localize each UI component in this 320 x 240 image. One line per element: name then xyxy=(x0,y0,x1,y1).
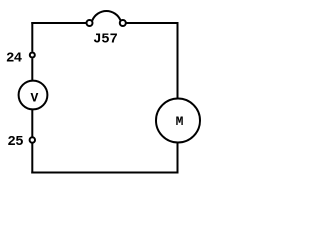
wire left lower vertical xyxy=(31,143,33,174)
svg-text:V: V xyxy=(30,90,38,105)
wire bottom xyxy=(31,172,178,174)
svg-text:24: 24 xyxy=(6,51,22,67)
wire left top vertical xyxy=(31,22,33,52)
node 25 terminal xyxy=(30,137,35,142)
svg-text:M: M xyxy=(176,114,184,129)
jumper J57 right terminal xyxy=(120,20,126,26)
node 24 terminal xyxy=(30,53,35,58)
jumper J57 left terminal xyxy=(87,20,93,26)
wire left middle vertical xyxy=(31,110,33,138)
motor M circle xyxy=(156,99,200,143)
wire top-right segment xyxy=(126,22,179,24)
jumper J57 arc xyxy=(92,11,120,21)
wire right lower vertical xyxy=(177,143,179,174)
voltmeter V circle xyxy=(19,81,48,110)
wire right upper vertical xyxy=(177,22,179,99)
wire top-left segment xyxy=(31,22,86,24)
svg-text:25: 25 xyxy=(7,134,23,150)
svg-text:J57: J57 xyxy=(93,32,118,48)
wire left upper-middle vertical xyxy=(31,59,33,81)
